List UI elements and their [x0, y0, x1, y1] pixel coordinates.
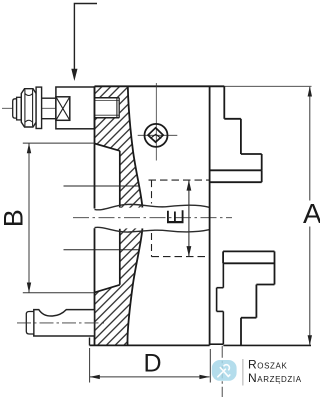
dimension B line [28, 143, 30, 292]
stud centerline [17, 322, 105, 324]
hatched flange section bottom [95, 228, 143, 345]
D extension line left [89, 348, 91, 383]
socket screw circle [145, 124, 168, 147]
leader arrow to stud [74, 4, 97, 73]
break wavy line bottom [95, 227, 210, 232]
stud cap [26, 312, 34, 335]
bore projection line upper [64, 185, 140, 187]
recess chamfer bottom [95, 285, 120, 293]
mounting stud [34, 310, 95, 336]
break wavy line top [95, 204, 210, 210]
boss block [56, 87, 95, 129]
bottom jaw [223, 251, 274, 345]
svg-text:E: E [163, 209, 190, 225]
body top edge [95, 85, 225, 87]
watermark icon [212, 360, 237, 381]
socket screw crosshair [155, 83, 157, 161]
top jaw [210, 86, 262, 182]
svg-text:A: A [303, 198, 320, 229]
rim edge bottom left [89, 338, 91, 346]
recess chamfer top [95, 144, 120, 151]
bolt axis centerline [2, 107, 114, 109]
main centerline [73, 217, 232, 219]
socket inner square [151, 134, 161, 141]
body left edge upper [94, 86, 96, 208]
key section square with cross [56, 97, 70, 121]
svg-text:D: D [144, 349, 162, 377]
bottom edge under jaw [223, 344, 311, 346]
hatched flange section top [95, 86, 143, 208]
dimension E line [188, 180, 190, 257]
hidden slot vertical top [151, 180, 153, 203]
bore wall top [119, 151, 121, 208]
bore projection line lower [64, 249, 140, 251]
socket corner tick [148, 135, 151, 138]
svg-text:Narzędzia: Narzędzia [248, 371, 302, 385]
body left edge lower [94, 228, 96, 345]
hidden slot line bottom [152, 256, 210, 258]
svg-text:Roszak: Roszak [248, 357, 287, 371]
chuck face line [209, 86, 211, 345]
dimension D line [90, 376, 210, 378]
flange S-curve bottom [127, 228, 142, 345]
bore wall bottom [119, 229, 121, 285]
watermark divider [242, 359, 244, 386]
socket square [148, 128, 163, 142]
dimension A line [309, 87, 311, 201]
hex nut [21, 89, 36, 127]
body bottom edge [90, 344, 210, 346]
D extension line right [209, 349, 211, 383]
jaw guide strip bottom [210, 263, 223, 344]
B extension line top [23, 142, 95, 144]
top extension line to A [224, 85, 311, 87]
hidden slot vertical bottom [151, 233, 153, 257]
bottom jaw slot centerline [221, 346, 223, 397]
B extension line bottom [23, 292, 95, 294]
hidden slot line top [149, 179, 210, 181]
bolt collar [17, 97, 22, 120]
flange S-curve top [128, 86, 143, 207]
bolt shank [42, 97, 56, 99]
bolt cap [13, 99, 17, 118]
svg-text:B: B [0, 209, 29, 227]
threaded hole in flange [95, 98, 120, 118]
washer [36, 87, 42, 128]
